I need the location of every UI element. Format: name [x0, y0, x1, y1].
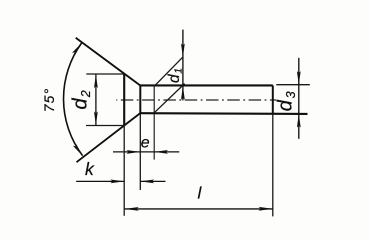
shank top outline	[140, 84, 272, 86]
dimension d3 line	[298, 58, 300, 139]
cone-to-shank junction edge	[139, 86, 141, 114]
dimension d3 up arrow	[297, 114, 301, 128]
extension line from shank end down to l dimension	[272, 113, 274, 216]
dimension d1 oblique extension line upper	[155, 57, 183, 85]
shank bottom outline continuing as d3 bottom extension line	[140, 112, 307, 115]
dimension k line right with arrow	[140, 180, 165, 182]
dimension d1 oblique extension line lower	[154, 84, 185, 114]
dimension k line left with arrow	[76, 180, 124, 182]
dimension d2 top extension line	[86, 73, 124, 75]
svg-text:75°: 75°	[41, 88, 57, 112]
rivet head flat face (vertical outline)	[123, 74, 125, 126]
shank end face outline	[272, 85, 274, 113]
dimension d1 line	[182, 30, 184, 101]
countersunk cone bottom edge with construction extension	[77, 113, 141, 162]
dimension l line with arrows	[125, 208, 273, 210]
extension line from head face down to k and l dimensions	[123, 126, 125, 216]
dimension d1 up arrow	[181, 86, 185, 100]
svg-text:e: e	[141, 135, 150, 152]
extension line from junction down to e and k dimensions	[139, 113, 141, 190]
75-degree angle dimension arc with arrows	[64, 43, 83, 156]
svg-text:k: k	[85, 159, 95, 179]
dimension e line with inward-facing arrows	[113, 151, 179, 153]
dimension d1 down arrow	[181, 43, 185, 57]
center line (rivet axis, dash-dot)	[116, 99, 276, 101]
dimension d2 line with outward arrows	[95, 74, 97, 126]
dimension d3 down arrow	[297, 71, 301, 85]
dimension e extension line through shank	[153, 86, 155, 160]
countersunk cone top edge with 75-degree construction extension	[76, 38, 141, 86]
dimension d2 bottom extension line	[86, 125, 124, 127]
dimension d3 top extension line	[276, 84, 310, 86]
